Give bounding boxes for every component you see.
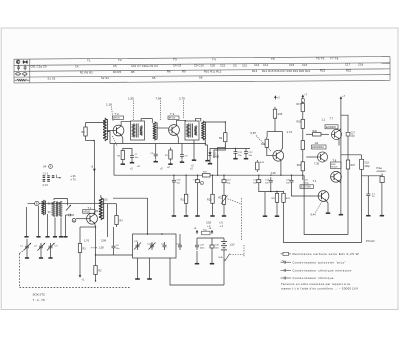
dashed battery vertical	[243, 245, 245, 258]
gang bar C1a	[25, 257, 29, 259]
svg-text:7 - 4 - 70: 7 - 4 - 70	[33, 298, 45, 302]
svg-text:1 2 3: 1 2 3	[43, 173, 49, 176]
svg-text:OA90: OA90	[213, 155, 220, 158]
pot dashed link	[228, 199, 242, 204]
type box T7 E2N2904	[325, 125, 338, 129]
dashed gang link diagonal	[20, 250, 25, 254]
wire coil to T2 base	[107, 130, 113, 132]
dashed separator	[160, 101, 162, 121]
supply arrow rail	[340, 96, 343, 100]
wire C20 top	[291, 175, 293, 177]
svg-text:500µ: 500µ	[304, 182, 310, 184]
resistor R13b	[256, 160, 259, 172]
wire T1 emitter drop	[95, 227, 97, 255]
svg-text:7,94: 7,94	[156, 97, 162, 101]
svg-text:T5 T6: T5 T6	[316, 57, 325, 61]
svg-text:M-A: M-A	[219, 256, 224, 259]
wire R1 bottom	[79, 255, 81, 274]
wire T7 emitter	[338, 139, 340, 146]
svg-text:C9: C9	[233, 63, 237, 67]
legend electrolytic symbol 2	[23, 73, 27, 77]
gang wire 1	[26, 207, 28, 237]
svg-text:C22a: C22a	[147, 244, 153, 246]
diode D1	[208, 149, 211, 162]
capacitor C6	[112, 243, 116, 251]
resistor R9	[224, 130, 227, 144]
wire C13 top	[258, 175, 260, 177]
svg-text:1,1: 1,1	[322, 117, 326, 121]
wire R13 top	[212, 175, 214, 192]
junction dot gang box top	[147, 233, 149, 235]
wire T6 base	[306, 156, 317, 158]
variable capacitor C2	[34, 243, 45, 251]
wire C17 feed	[341, 115, 348, 132]
resistor R1	[78, 241, 81, 255]
capacitor C18	[360, 159, 364, 169]
wire R1 to emitter	[80, 226, 96, 228]
ground C7	[130, 161, 134, 163]
svg-text:C4 C6: C4 C6	[173, 64, 182, 68]
capacitor C19	[366, 191, 370, 199]
wire T5 loop left	[266, 132, 268, 138]
wire R13 bottom	[212, 206, 214, 214]
svg-text:2 4 6: 2 4 6	[43, 184, 49, 187]
svg-text:R5: R5	[131, 70, 135, 74]
wire C17 down	[347, 136, 349, 158]
svg-text:T 1: T 1	[88, 206, 92, 210]
wire can1 to coil	[141, 119, 152, 123]
junction dot gang box top b	[161, 233, 163, 235]
resistor R2	[94, 263, 97, 277]
legend symbols in table	[15, 60, 30, 81]
svg-text:1,35: 1,35	[271, 171, 277, 175]
resistor R14 base feed	[265, 137, 268, 150]
pot arrow	[221, 195, 228, 204]
svg-text:R10 R11 R12: R10 R11 R12	[204, 70, 222, 74]
gang bar 5	[59, 236, 63, 238]
svg-text:masse (-) à l’aide d’un contrô: masse (-) à l’aide d’un contrôleur → ~ 2…	[281, 287, 358, 291]
ground C11	[233, 157, 237, 159]
svg-text:T2: T2	[118, 58, 122, 62]
wire bus left riser	[113, 144, 115, 176]
svg-text:Tensions en volts mesurées par: Tensions en volts mesurées par rapport à…	[281, 282, 350, 286]
dashed lead to T2	[112, 107, 114, 122]
svg-text:Résistance carbone série E2x 0: Résistance carbone série E2x 0,25 W	[293, 252, 359, 256]
svg-text:T5: T5	[271, 57, 275, 61]
bar drop 1	[135, 278, 140, 280]
svg-text:1,95: 1,95	[128, 97, 134, 101]
dashed lead 1,38	[90, 247, 97, 249]
wire R11 bottom	[185, 206, 187, 214]
type box T1 AF185	[83, 210, 96, 214]
ground left drop	[263, 214, 267, 216]
svg-text:C22: C22	[220, 63, 226, 67]
svg-text:T 4: T 4	[313, 179, 317, 183]
wire C30 bottom	[211, 251, 213, 262]
table bottom border	[14, 80, 390, 83]
wire R2 top	[95, 255, 97, 263]
svg-text:1,38: 1,38	[99, 246, 105, 250]
resistor R18	[301, 117, 304, 131]
dashed gang enclosure bottom	[20, 287, 132, 289]
dashed lead to T5	[256, 136, 271, 152]
svg-text:R9: R9	[182, 70, 186, 74]
wire C6 top	[113, 227, 115, 243]
supply arrow +2	[274, 95, 277, 99]
wire C3 bottom	[50, 251, 52, 258]
ground C19	[366, 214, 370, 216]
svg-text:BC328: BC328	[331, 167, 338, 169]
wire R19 down to loop	[274, 121, 276, 132]
svg-text:E2N2904A: E2N2904A	[312, 146, 324, 149]
cap C2b in box	[163, 242, 167, 250]
wire R1 top	[79, 227, 81, 241]
junction dot bottom	[95, 280, 96, 281]
supply top wire	[302, 97, 304, 99]
tuner bus	[28, 203, 108, 205]
svg-text:100µ: 100µ	[364, 165, 370, 168]
wire C30 top	[211, 238, 213, 243]
battery	[221, 238, 235, 253]
wire T1 collector	[95, 211, 99, 215]
svg-text:R22: R22	[346, 69, 352, 73]
svg-text:1,76: 1,76	[84, 238, 90, 242]
wire box drop 1	[137, 258, 139, 279]
wire T8 collector down	[339, 181, 341, 183]
wire rail c	[302, 152, 304, 159]
svg-text:100n: 100n	[200, 247, 206, 249]
circled a	[200, 181, 203, 184]
ground C30	[210, 262, 214, 264]
svg-text:C15: C15	[289, 63, 295, 67]
wire R9 to bus	[218, 144, 226, 175]
TABLE	[14, 57, 390, 83]
svg-text:T 3: T 3	[170, 112, 175, 116]
svg-text:C13: C13	[254, 63, 260, 67]
svg-text:R1 R6 R2: R1 R6 R2	[80, 70, 93, 74]
coil S input	[103, 118, 107, 141]
main horizontal bus	[114, 174, 303, 176]
antenna transformer	[52, 201, 62, 217]
horizontal resistor R20	[306, 130, 329, 136]
wire T7 collector up	[339, 129, 341, 132]
gang wire 2	[38, 206, 40, 237]
ground R7	[168, 162, 172, 164]
wire T4 base	[314, 195, 319, 197]
bracket arrowhead	[60, 177, 62, 179]
switch contacts row 2	[43, 180, 50, 182]
svg-text:⊣ 70: ⊣ 70	[70, 179, 76, 182]
legend resistor zigzag	[15, 79, 30, 81]
wire C13 bottom	[258, 185, 260, 192]
transistor T4	[318, 191, 329, 202]
svg-text:T4: T4	[212, 57, 216, 61]
dashed separator	[183, 101, 185, 120]
IF transformer S7/S8	[131, 121, 145, 140]
wire supply top bar	[197, 237, 224, 239]
cap C29	[195, 242, 199, 250]
capacitor C12	[244, 149, 248, 157]
svg-text:C10: C10	[242, 63, 248, 67]
earphone feed wire	[362, 175, 382, 177]
dashed lead to T2 emitter	[113, 136, 118, 147]
svg-text:R17: R17	[297, 103, 302, 106]
svg-text:0,87: 0,87	[251, 131, 257, 135]
wire T2 collector	[121, 122, 130, 126]
svg-text:R14 R15 R16 R17 R18 R19 R20 R2: R14 R15 R16 R17 R18 R19 R20 R21	[262, 69, 311, 73]
variable capacitor C1a	[20, 243, 31, 251]
capacitor C8	[154, 151, 158, 159]
svg-text:R3 R5: R3 R5	[113, 70, 122, 74]
type box T8a E2N2904A	[312, 145, 327, 149]
cap C30	[210, 243, 214, 251]
wire C29 bottom	[196, 251, 198, 262]
gang wire 3	[47, 214, 49, 237]
legend transistor symbol	[16, 60, 20, 64]
wire C14 bottom	[270, 185, 272, 192]
dashed lead to T4	[316, 202, 322, 213]
gang box	[133, 234, 177, 258]
ground C29	[195, 262, 199, 264]
wire T5 base	[267, 150, 273, 156]
legend cap chimique symbol	[281, 277, 292, 280]
legend capacitor symbol 2	[24, 65, 27, 71]
wire pot bottom	[223, 207, 225, 214]
svg-text:⊣ 60: ⊣ 60	[70, 175, 76, 178]
svg-text:SOK.I/T2: SOK.I/T2	[33, 292, 46, 296]
wire T3 collector	[177, 120, 186, 125]
wire C1a top	[26, 239, 28, 243]
svg-text:C17: C17	[345, 63, 351, 67]
resistor R19	[273, 107, 276, 121]
coil S11	[201, 121, 205, 140]
wire osc to gang box	[113, 198, 148, 234]
wire rail drop left	[107, 132, 110, 144]
main right vertical rail	[340, 101, 342, 213]
wire left ground drop	[264, 192, 266, 214]
ground C16	[172, 214, 176, 216]
wire R2 bottom	[95, 277, 97, 281]
on-off switch M-A	[219, 254, 230, 261]
wire C16 bottom	[173, 185, 175, 214]
ground can2	[192, 158, 196, 160]
svg-text:Condensateur chimique: Condensateur chimique	[293, 276, 335, 280]
trimmer C1	[66, 214, 75, 217]
svg-text:1,74: 1,74	[287, 130, 293, 134]
legend capacitor symbol 1	[17, 65, 20, 71]
supply arrow +2 b	[211, 230, 214, 234]
IF transformer 2	[185, 121, 199, 140]
wire S3 top	[100, 195, 102, 198]
svg-text:E2N/: E2N/	[331, 164, 336, 166]
svg-text:R20: R20	[313, 130, 318, 133]
switch contacts row 1	[43, 176, 55, 178]
ground coil2	[205, 159, 209, 161]
svg-text:+,5: +,5	[219, 221, 223, 225]
wire R11 top	[185, 175, 187, 192]
junction dot	[93, 140, 94, 141]
ground R5	[121, 162, 125, 164]
wire C18 top	[361, 155, 363, 160]
svg-text:3,55: 3,55	[206, 221, 212, 225]
legend electrolytic symbol 1	[15, 73, 21, 75]
svg-text:R19: R19	[278, 113, 283, 116]
svg-text:E2N2904: E2N2904	[326, 126, 337, 129]
transistor T8	[331, 171, 342, 182]
wire jack down	[381, 183, 383, 214]
switch box S1a	[202, 230, 211, 235]
svg-text:R14: R14	[261, 143, 266, 146]
svg-text:S2 S4: S2 S4	[101, 76, 109, 80]
svg-text:AF185: AF185	[83, 211, 90, 214]
transistor T2	[113, 125, 124, 136]
resistor R21b	[301, 138, 304, 152]
junction dot R9 bus	[217, 175, 218, 176]
feedback outer loop	[284, 205, 362, 243]
resistor R13	[211, 192, 214, 206]
wire C6 bottom	[113, 251, 115, 255]
svg-text:R27: R27	[351, 164, 356, 167]
ground R1	[79, 274, 82, 278]
resistor R15	[275, 191, 278, 205]
svg-text:T 2: T 2	[115, 112, 120, 116]
svg-text:10µ: 10µ	[351, 135, 356, 138]
svg-text:R11: R11	[181, 198, 186, 201]
svg-text:1/2: 1/2	[315, 141, 319, 145]
variable capacitor C3	[47, 243, 58, 251]
capacitor C11	[234, 149, 238, 157]
wire rail b	[302, 131, 304, 138]
wire C18 feed	[341, 154, 362, 156]
wire rail a	[302, 114, 304, 117]
svg-text:R13: R13	[252, 69, 258, 73]
ground pot	[222, 214, 226, 216]
wire T2 emitter	[121, 135, 123, 144]
table row line 3	[14, 69, 390, 71]
resistor R5	[121, 148, 124, 162]
legend cap polyester symbol	[281, 260, 292, 263]
svg-text:R6: R6	[167, 70, 171, 74]
gang bar 4	[53, 236, 57, 238]
svg-text:3,99: 3,99	[101, 238, 107, 242]
table top border	[14, 57, 390, 60]
legend resistor symbol	[281, 252, 292, 255]
wire C10 top	[223, 175, 225, 177]
svg-text:R22: R22	[297, 164, 302, 167]
circled A	[49, 165, 53, 169]
svg-text:écouteur: écouteur	[377, 170, 387, 173]
resistor R11	[184, 192, 187, 206]
wire transformer top	[54, 199, 68, 206]
ground jack	[380, 214, 384, 216]
ground C9	[180, 160, 184, 162]
svg-text:C10 C7 C20a C9 C3: C10 C7 C20a C9 C3	[131, 64, 158, 68]
svg-text:C4: C4	[75, 64, 79, 68]
transistor T5	[273, 150, 284, 161]
supply arrow R17	[302, 94, 305, 98]
svg-text:AF126: AF126	[169, 117, 176, 120]
wire coil2 bottom drop	[205, 140, 207, 159]
svg-text:C14: C14	[263, 63, 269, 67]
svg-text:PO.GO: PO.GO	[366, 239, 375, 243]
preamp node wire	[259, 191, 284, 193]
ground diode	[208, 162, 212, 164]
supply fuse box	[301, 99, 304, 103]
ground C15a	[195, 214, 199, 216]
wire C29 top	[196, 238, 198, 243]
ground T4	[326, 211, 330, 213]
coil S9	[153, 122, 157, 141]
wire bus right to R3	[108, 203, 117, 205]
svg-text:7,35: 7,35	[314, 162, 320, 166]
wire C19 bottom	[367, 199, 369, 214]
gang bar C3	[48, 257, 52, 259]
svg-text:T7 T8: T7 T8	[330, 57, 339, 61]
svg-text:S5: S5	[152, 76, 156, 80]
wire T4 collector down	[326, 200, 328, 211]
wire C1a bottom	[26, 251, 28, 258]
svg-text:E2SY56A: E2SY56A	[301, 186, 311, 189]
wire box drop 2	[149, 258, 151, 279]
transistor T1	[87, 213, 98, 224]
svg-text:T 7: T 7	[330, 117, 334, 121]
wire input to coil	[85, 123, 87, 125]
emitter rail	[110, 143, 206, 145]
table legend divider	[29, 59, 31, 83]
table right edge	[389, 57, 391, 81]
table left edge	[13, 59, 15, 83]
junction dot emitter	[95, 226, 96, 227]
wire coil2 right to R	[205, 122, 225, 130]
ground C12	[244, 157, 248, 159]
antenna arrow	[66, 205, 71, 211]
bottom-left drawing number	[33, 292, 46, 302]
svg-text:R12: R12	[219, 196, 224, 199]
wire rail bottom to bus	[302, 173, 304, 180]
resistor R27	[346, 158, 349, 172]
wire T5 loop top	[267, 131, 282, 133]
capacitor C7	[130, 153, 134, 161]
type box T2	[113, 116, 124, 119]
svg-text:9,44: 9,44	[311, 213, 317, 217]
wire mid horizontal	[96, 254, 133, 256]
gang wire 4	[54, 218, 56, 237]
legend diode symbol	[23, 61, 28, 64]
svg-text:AF125: AF125	[113, 117, 120, 120]
resistor R3	[115, 213, 118, 227]
wire C11	[235, 148, 237, 150]
wire T5 loop right	[281, 132, 283, 151]
type box T4 E2SY56A	[300, 185, 314, 189]
gang wire 5	[60, 218, 62, 237]
wire C8 top	[155, 144, 157, 152]
arrow bracket	[57, 175, 61, 178]
svg-text:C61 C2q C9: C61 C2q C9	[31, 65, 47, 69]
wire C7 top	[123, 149, 132, 153]
cap C22a in box	[147, 242, 156, 250]
wire C10 to pot	[223, 185, 225, 193]
capacitor C10	[222, 177, 226, 185]
oscillator coil S3	[99, 198, 104, 220]
ground R15	[275, 214, 279, 216]
svg-text:C5: C5	[113, 64, 117, 68]
bottom-right legend symbols	[281, 252, 292, 279]
legend cap chimique mini symbol	[281, 269, 292, 272]
wire C2 bottom	[40, 251, 42, 258]
bus junction dots	[173, 175, 303, 176]
junction dot	[225, 121, 226, 122]
svg-text:Condensateur polyester “pico”: Condensateur polyester “pico”	[293, 260, 347, 264]
